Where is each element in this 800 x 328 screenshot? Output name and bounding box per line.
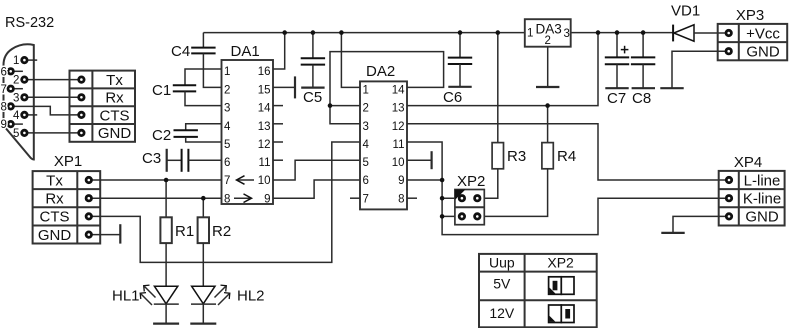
svg-text:9: 9 xyxy=(1,119,7,131)
XP1 pin Rx xyxy=(86,196,91,201)
wire DA2 pin8 stub xyxy=(407,197,417,199)
node junction rail C7 xyxy=(615,30,620,35)
capacitor C4 xyxy=(171,33,222,88)
wire XP1 GND stub xyxy=(89,234,121,236)
svg-text:5V: 5V xyxy=(493,276,511,292)
svg-text:13: 13 xyxy=(392,103,405,115)
ground at DA1 pin15 xyxy=(294,76,296,98)
svg-text:14: 14 xyxy=(392,84,405,96)
svg-text:R3: R3 xyxy=(507,148,526,165)
svg-text:2: 2 xyxy=(363,103,369,115)
capacitor C1 xyxy=(152,69,222,106)
ground at DA2 pin10 xyxy=(431,151,433,169)
connector XP3 xyxy=(718,24,788,61)
svg-text:5: 5 xyxy=(363,157,369,169)
connector DB9 shell xyxy=(4,44,34,159)
wire XP1 Rx to DA1 pin8 xyxy=(89,197,222,199)
node junction R1-Tx xyxy=(164,178,169,183)
svg-text:3: 3 xyxy=(363,121,369,133)
svg-text:XP2: XP2 xyxy=(457,173,485,190)
svg-text:7: 7 xyxy=(1,84,7,96)
IC DA2 body xyxy=(360,63,407,209)
svg-text:C7: C7 xyxy=(607,90,626,107)
wire DA1 pin14 stub xyxy=(273,105,283,107)
node junction XP2 bottom-left xyxy=(440,214,445,219)
svg-text:C1: C1 xyxy=(152,82,171,99)
XP1 pin Tx xyxy=(86,177,91,182)
svg-text:R1: R1 xyxy=(175,223,194,240)
wire XP4 GND to ground xyxy=(673,216,729,233)
svg-text:15: 15 xyxy=(258,84,271,96)
wire DA1 pin16 to rail xyxy=(273,33,285,69)
wire XP3 GND to ground xyxy=(672,51,729,88)
XP4 pin K-line xyxy=(726,196,731,201)
wire R2 top xyxy=(202,198,204,217)
capacitor C7 electrolytic xyxy=(605,33,629,107)
breakout pin Rx xyxy=(79,95,84,100)
svg-text:C4: C4 xyxy=(171,43,190,60)
svg-text:10: 10 xyxy=(258,175,271,187)
DB9 pin 5 xyxy=(13,128,81,140)
XP4 pin L-line xyxy=(726,177,731,182)
XP2 pin 4 xyxy=(475,214,480,219)
LED HL1 xyxy=(112,285,179,305)
svg-text:C8: C8 xyxy=(632,90,651,107)
node junction rail pin16 xyxy=(282,30,287,35)
svg-text:XP3: XP3 xyxy=(736,7,764,24)
svg-text:8: 8 xyxy=(1,102,7,114)
svg-text:13: 13 xyxy=(258,121,271,133)
ground at C7 xyxy=(605,87,628,89)
diode VD1 xyxy=(671,3,729,42)
svg-text:3: 3 xyxy=(224,103,230,115)
XP1 pin GND xyxy=(86,232,91,237)
svg-text:C2: C2 xyxy=(152,127,171,144)
capacitor C6 xyxy=(443,33,472,106)
resistor R4 xyxy=(477,106,576,217)
svg-text:2: 2 xyxy=(13,75,19,87)
node junction R2-Rx xyxy=(201,196,206,201)
wire R1 top xyxy=(165,180,167,217)
power rail right segment xyxy=(571,32,673,34)
svg-text:Tx: Tx xyxy=(46,172,63,189)
wire DA3 pin2 to ground xyxy=(547,47,549,87)
node junction R4 top xyxy=(545,103,550,108)
svg-text:12V: 12V xyxy=(489,305,515,321)
svg-text:4: 4 xyxy=(363,139,370,151)
svg-text:XP1: XP1 xyxy=(54,153,82,170)
DB9 pin 7 xyxy=(1,84,23,96)
node junction DA2 pin2 xyxy=(328,103,333,108)
svg-text:Rx: Rx xyxy=(45,191,64,208)
svg-text:7: 7 xyxy=(224,175,230,187)
node junction rail C6 xyxy=(458,30,463,35)
svg-text:Rx: Rx xyxy=(105,90,124,107)
svg-text:GND: GND xyxy=(38,227,72,244)
ground at C8 xyxy=(632,87,655,89)
svg-text:14: 14 xyxy=(258,103,271,115)
svg-text:12: 12 xyxy=(258,139,271,151)
DB9 pin 3 xyxy=(13,92,81,104)
ground at HL1 xyxy=(153,323,179,325)
capacitor C8 xyxy=(631,33,655,107)
ground at C6 xyxy=(448,86,471,88)
svg-text:1: 1 xyxy=(527,28,533,40)
jumper icon 12V position xyxy=(549,305,574,323)
svg-text:HL1: HL1 xyxy=(112,288,140,305)
wire XP1 Tx to DA1 pin7 xyxy=(89,179,222,181)
svg-text:6: 6 xyxy=(363,175,369,187)
node junction pin9 xyxy=(440,178,445,183)
svg-text:Uup: Uup xyxy=(489,255,515,271)
XP2 pin 3 xyxy=(459,214,464,219)
svg-text:2: 2 xyxy=(545,35,551,47)
svg-text:HL2: HL2 xyxy=(237,288,265,305)
breakout pin GND xyxy=(79,130,84,135)
resistor R2 xyxy=(198,217,232,243)
svg-text:1: 1 xyxy=(224,66,230,78)
wire DA2 pin9 branch xyxy=(407,179,442,181)
svg-text:6: 6 xyxy=(224,157,230,169)
DA1 direction arrow pin8 to pin9 xyxy=(234,194,252,203)
DB9 pin 9 xyxy=(1,119,23,131)
node junction XP2 top-left xyxy=(440,196,445,201)
wire DA2 pin11 to XP2 and XP4 K-line xyxy=(407,142,729,235)
svg-text:VD1: VD1 xyxy=(671,3,700,20)
svg-text:11: 11 xyxy=(393,139,405,151)
resistor R1 xyxy=(160,217,194,243)
svg-text:CTS: CTS xyxy=(100,107,130,124)
wire DA1 pin9 to DA2 pin6 xyxy=(273,180,360,198)
svg-text:3: 3 xyxy=(13,92,19,104)
svg-text:1: 1 xyxy=(13,55,19,67)
svg-text:C5: C5 xyxy=(303,89,322,106)
svg-text:+Vcc: +Vcc xyxy=(746,25,780,42)
capacitor C3 xyxy=(142,149,222,172)
svg-text:C3: C3 xyxy=(142,150,161,167)
LED HL2 xyxy=(191,285,265,305)
svg-text:1: 1 xyxy=(363,84,369,96)
svg-text:DA2: DA2 xyxy=(366,63,395,80)
svg-text:2: 2 xyxy=(224,84,230,96)
XP2 pin 1 xyxy=(459,196,464,201)
op-amp U1 / IC DA1 body xyxy=(222,43,274,205)
wire branch to XP2 pin top-left xyxy=(442,197,462,199)
svg-text:Tx: Tx xyxy=(106,72,123,89)
connector XP2 jumper block xyxy=(455,190,484,225)
connector block DB9 breakout (Tx Rx CTS GND) xyxy=(70,71,136,143)
svg-text:K-line: K-line xyxy=(743,191,781,208)
svg-text:9: 9 xyxy=(398,175,404,187)
XP3 pin GND xyxy=(726,49,731,54)
wire branch to XP2 pin bottom-left xyxy=(442,215,462,217)
wire DA1 pin13 stub xyxy=(273,123,283,125)
svg-text:4: 4 xyxy=(224,121,231,133)
ground at C5 xyxy=(301,86,324,88)
wire R2 to HL2 xyxy=(202,243,204,286)
wire DA1 pin15 stub xyxy=(273,86,295,88)
ground at XP1 GND xyxy=(119,224,121,243)
svg-text:8: 8 xyxy=(398,193,404,205)
svg-text:6: 6 xyxy=(1,66,7,78)
DB9 pin 4 xyxy=(13,110,37,122)
wire DA1 pin12 stub xyxy=(273,141,283,143)
svg-text:9: 9 xyxy=(264,193,270,205)
svg-text:5: 5 xyxy=(13,128,19,140)
svg-text:3: 3 xyxy=(564,28,570,40)
svg-text:XP2: XP2 xyxy=(547,255,574,271)
resistor R3 xyxy=(477,33,526,199)
XP3 pin +Vcc xyxy=(726,30,731,35)
table jumper settings xyxy=(479,254,597,327)
DB9 pin 1 xyxy=(13,55,37,67)
ground at HL2 xyxy=(190,323,216,325)
svg-text:CTS: CTS xyxy=(40,209,70,226)
DA1 direction arrow pin10 to pin7 xyxy=(237,176,255,185)
jumper icon 5V position xyxy=(549,277,574,295)
node junction rail pin13 xyxy=(596,30,601,35)
svg-text:4: 4 xyxy=(13,110,20,122)
svg-text:DA1: DA1 xyxy=(231,43,260,60)
wire rail to DA2 pin1 xyxy=(341,33,360,88)
svg-text:GND: GND xyxy=(745,209,779,226)
DB9 pin 6 xyxy=(1,66,23,78)
wire R1 to HL1 xyxy=(165,243,167,286)
DB9 pin 8 wire to CTS xyxy=(1,102,82,115)
svg-text:10: 10 xyxy=(392,157,405,169)
svg-text:R2: R2 xyxy=(212,223,231,240)
ground at XP4 xyxy=(661,232,684,234)
svg-text:XP4: XP4 xyxy=(734,154,762,171)
breakout pin Tx xyxy=(79,77,84,82)
svg-text:8: 8 xyxy=(224,193,230,205)
node junction rail DA2 pin1 xyxy=(339,30,344,35)
XP2 pin 2 xyxy=(475,196,480,201)
svg-text:R4: R4 xyxy=(557,148,576,165)
connector XP1 xyxy=(33,171,101,244)
wire HL1 to ground xyxy=(165,304,167,324)
wire XP1 CTS to DA2 pin4 xyxy=(89,142,360,262)
wire DA2 pin13 to rail with R3 R4 pullups xyxy=(407,33,598,106)
XP1 pin CTS xyxy=(86,214,91,219)
voltage regulator DA3 xyxy=(525,19,571,47)
wire DA2 pin10 stub xyxy=(407,159,432,161)
svg-text:GND: GND xyxy=(746,44,780,61)
svg-text:L-line: L-line xyxy=(744,172,781,189)
XP4 pin GND xyxy=(726,214,731,219)
wire HL2 to ground xyxy=(202,304,204,324)
connector XP4 xyxy=(719,171,785,226)
node junction rail C5 xyxy=(311,30,316,35)
wire DA1 pin10 to DA2 pin5 xyxy=(273,160,360,180)
capacitor C2 xyxy=(152,124,222,144)
svg-text:5: 5 xyxy=(224,139,230,151)
ground at C3 xyxy=(166,149,168,172)
ground at XP3 xyxy=(660,87,683,89)
wire DA1 pin11 stub xyxy=(273,159,283,161)
svg-text:7: 7 xyxy=(363,193,369,205)
capacitor C5 xyxy=(301,33,325,106)
node junction rail R3 xyxy=(496,30,501,35)
svg-text:12: 12 xyxy=(392,121,405,133)
wire DA2 pin12 to XP4 L-line xyxy=(407,124,729,180)
svg-text:16: 16 xyxy=(258,66,271,78)
breakout pin CTS xyxy=(79,112,84,117)
DB9 pin 2 xyxy=(13,75,81,87)
ground at DA3 xyxy=(536,86,559,88)
node junction rail C8 xyxy=(641,30,646,35)
wire DA2 pin2 pin3 to pin14 loop xyxy=(330,52,444,124)
power rail +V top xyxy=(203,32,524,34)
svg-text:11: 11 xyxy=(259,157,271,169)
svg-text:GND: GND xyxy=(98,125,132,142)
svg-text:RS-232: RS-232 xyxy=(5,15,54,31)
svg-text:C6: C6 xyxy=(443,89,462,106)
wire DA2 pin7 stub xyxy=(350,197,360,199)
